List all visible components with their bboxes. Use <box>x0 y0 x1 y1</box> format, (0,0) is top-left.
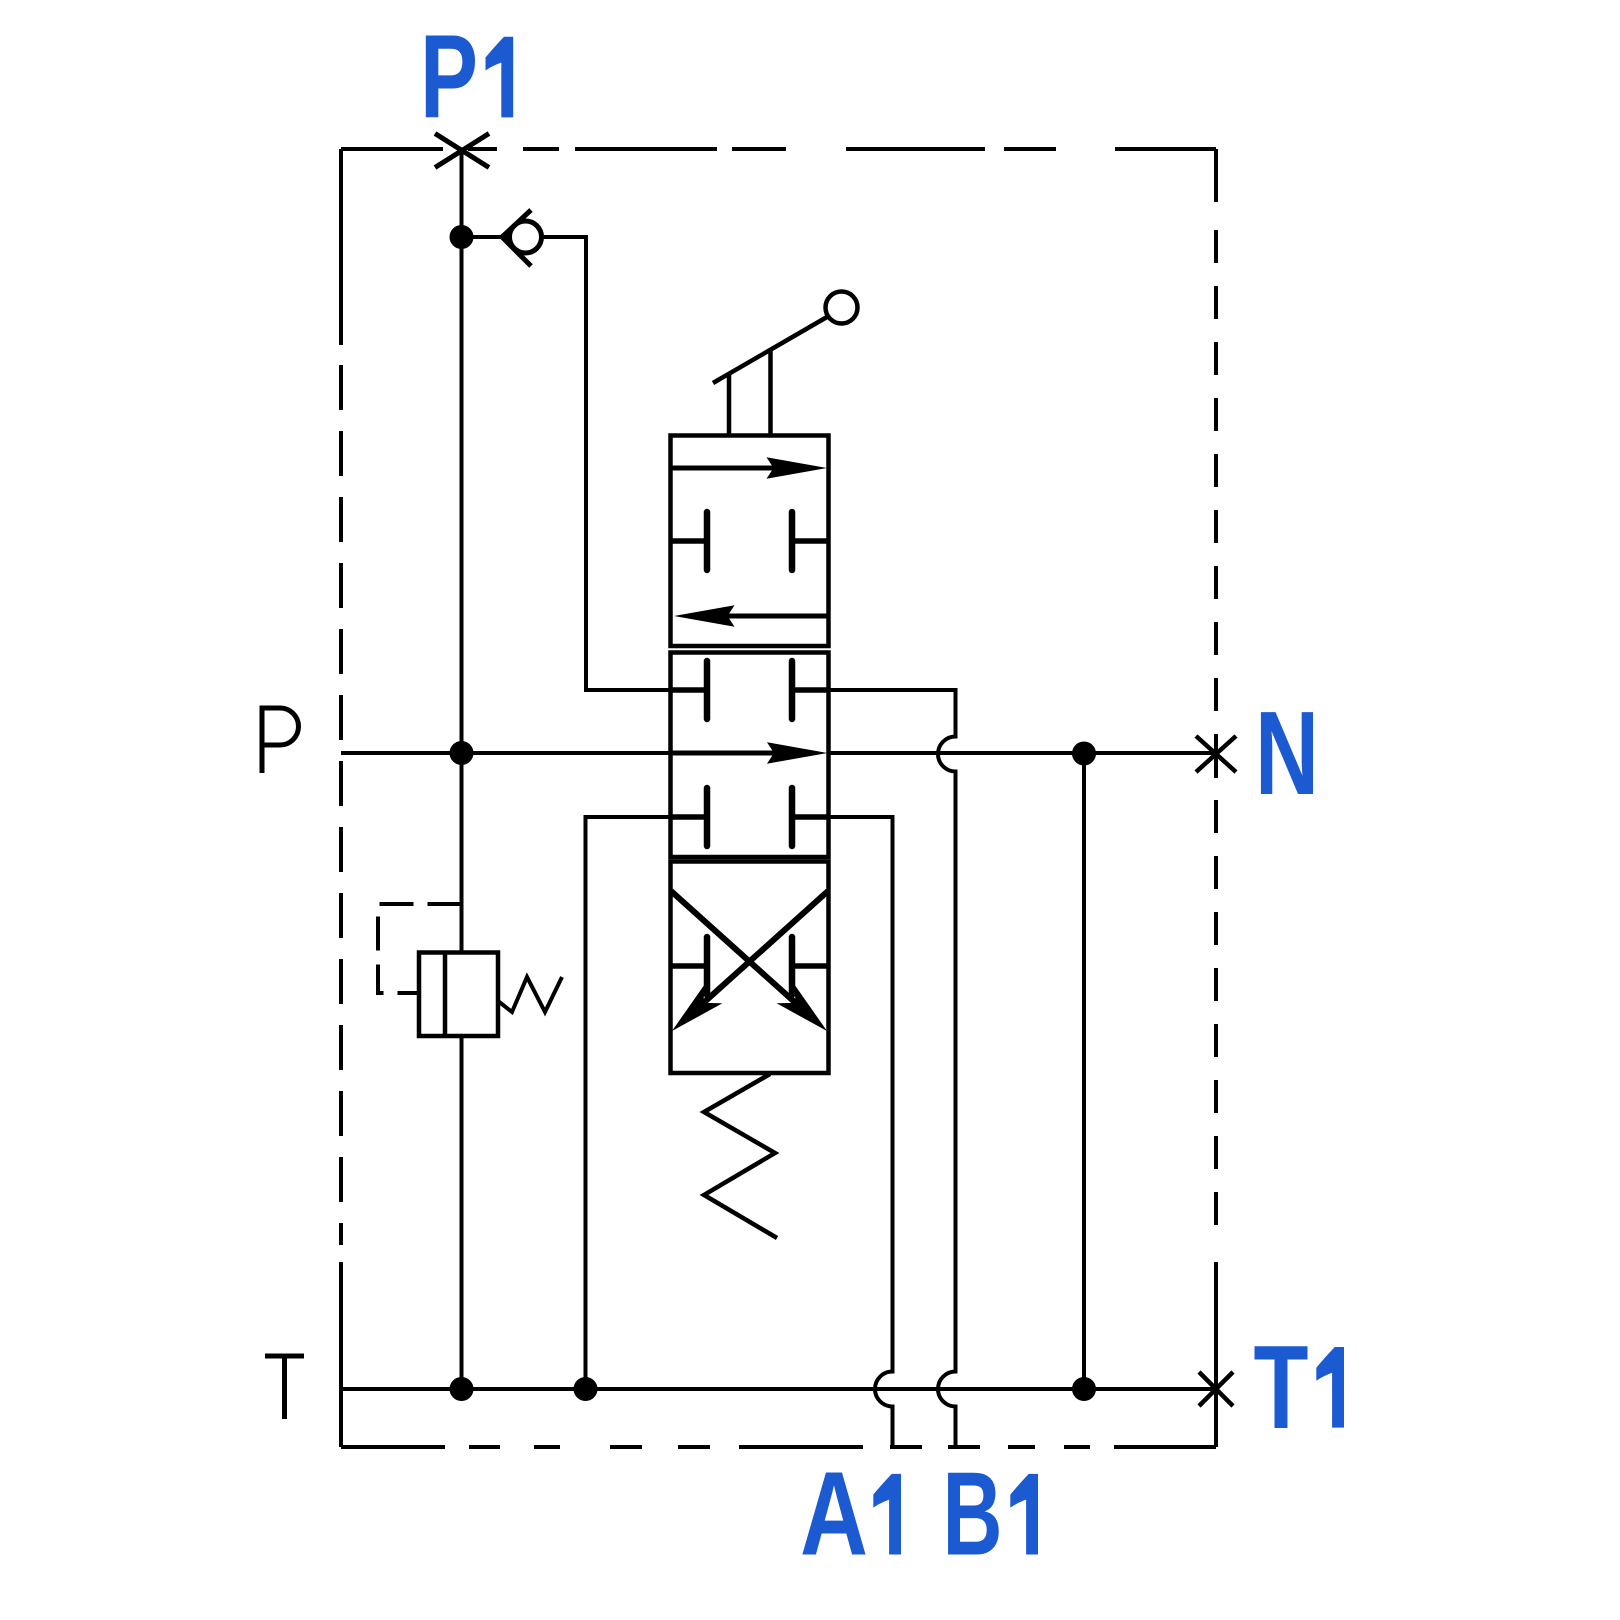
directional valve position box 3 <box>671 862 829 1074</box>
wire relief valve down to T line <box>460 1036 464 1389</box>
box2 flow arrow right <box>672 751 785 756</box>
relief valve body <box>419 953 498 1037</box>
junction dot P line <box>450 741 474 765</box>
box2 closed port left lower <box>671 814 708 820</box>
wire P1 down to relief valve <box>460 149 464 953</box>
box2 closed port left upper <box>671 687 708 693</box>
svg-text:T: T <box>1254 1321 1309 1454</box>
wire valve port to A1 with crossover hop <box>829 817 893 1447</box>
wire N line <box>829 751 1217 755</box>
box3 closed port right <box>792 963 829 969</box>
wire valve port to B1 with crossover hops <box>829 690 956 1447</box>
relief valve internal element <box>443 953 448 1037</box>
lever knob <box>826 292 858 324</box>
port P1 X mark <box>435 134 489 168</box>
directional valve position box 2 <box>671 653 829 858</box>
svg-text:P: P <box>420 11 478 144</box>
box2 closed port right lower <box>792 814 829 820</box>
junction dot P1 branch <box>450 225 474 249</box>
check valve seat <box>502 210 531 266</box>
svg-text:A: A <box>800 1448 868 1581</box>
relief valve pilot line (dashed) <box>378 904 462 993</box>
box3 crossed arrow to bottom-right <box>671 891 799 1006</box>
lever arm <box>713 317 827 383</box>
port N X mark <box>1196 736 1236 772</box>
wire T line <box>341 1387 1216 1391</box>
wire valve port left to T line <box>586 817 671 1389</box>
directional valve position box 1 <box>671 436 829 647</box>
junction dot N line <box>1072 742 1096 766</box>
box1 flow arrow left <box>724 614 827 619</box>
check valve ball <box>510 221 542 253</box>
label P <box>262 708 299 773</box>
junction dot T line at relief branch <box>450 1377 474 1401</box>
svg-text:B: B <box>943 1448 1003 1581</box>
box2 closed port right upper <box>792 687 829 693</box>
junction dot T line at valve branch <box>574 1377 598 1401</box>
valve centering spring <box>704 1074 777 1238</box>
enclosure left border <box>339 149 343 1447</box>
junction dot T line at N branch <box>1072 1377 1096 1401</box>
lever stem <box>729 351 771 436</box>
enclosure top border <box>341 147 1216 151</box>
box1 closed port left <box>671 538 708 544</box>
box1 flow arrow right <box>672 466 785 471</box>
enclosure bottom border <box>341 1445 1216 1449</box>
wire check valve branch <box>462 237 671 690</box>
svg-text:N: N <box>1255 687 1319 820</box>
label T <box>265 1356 304 1419</box>
enclosure right border <box>1214 149 1218 1447</box>
wire N junction down to T line <box>1082 753 1086 1389</box>
box1 closed port right <box>792 538 829 544</box>
box3 closed port left <box>671 963 708 969</box>
wire P line <box>341 751 671 755</box>
relief valve spring <box>498 977 562 1012</box>
box3 crossed arrow to bottom-left <box>700 891 828 1006</box>
port T1 X mark <box>1199 1372 1233 1406</box>
